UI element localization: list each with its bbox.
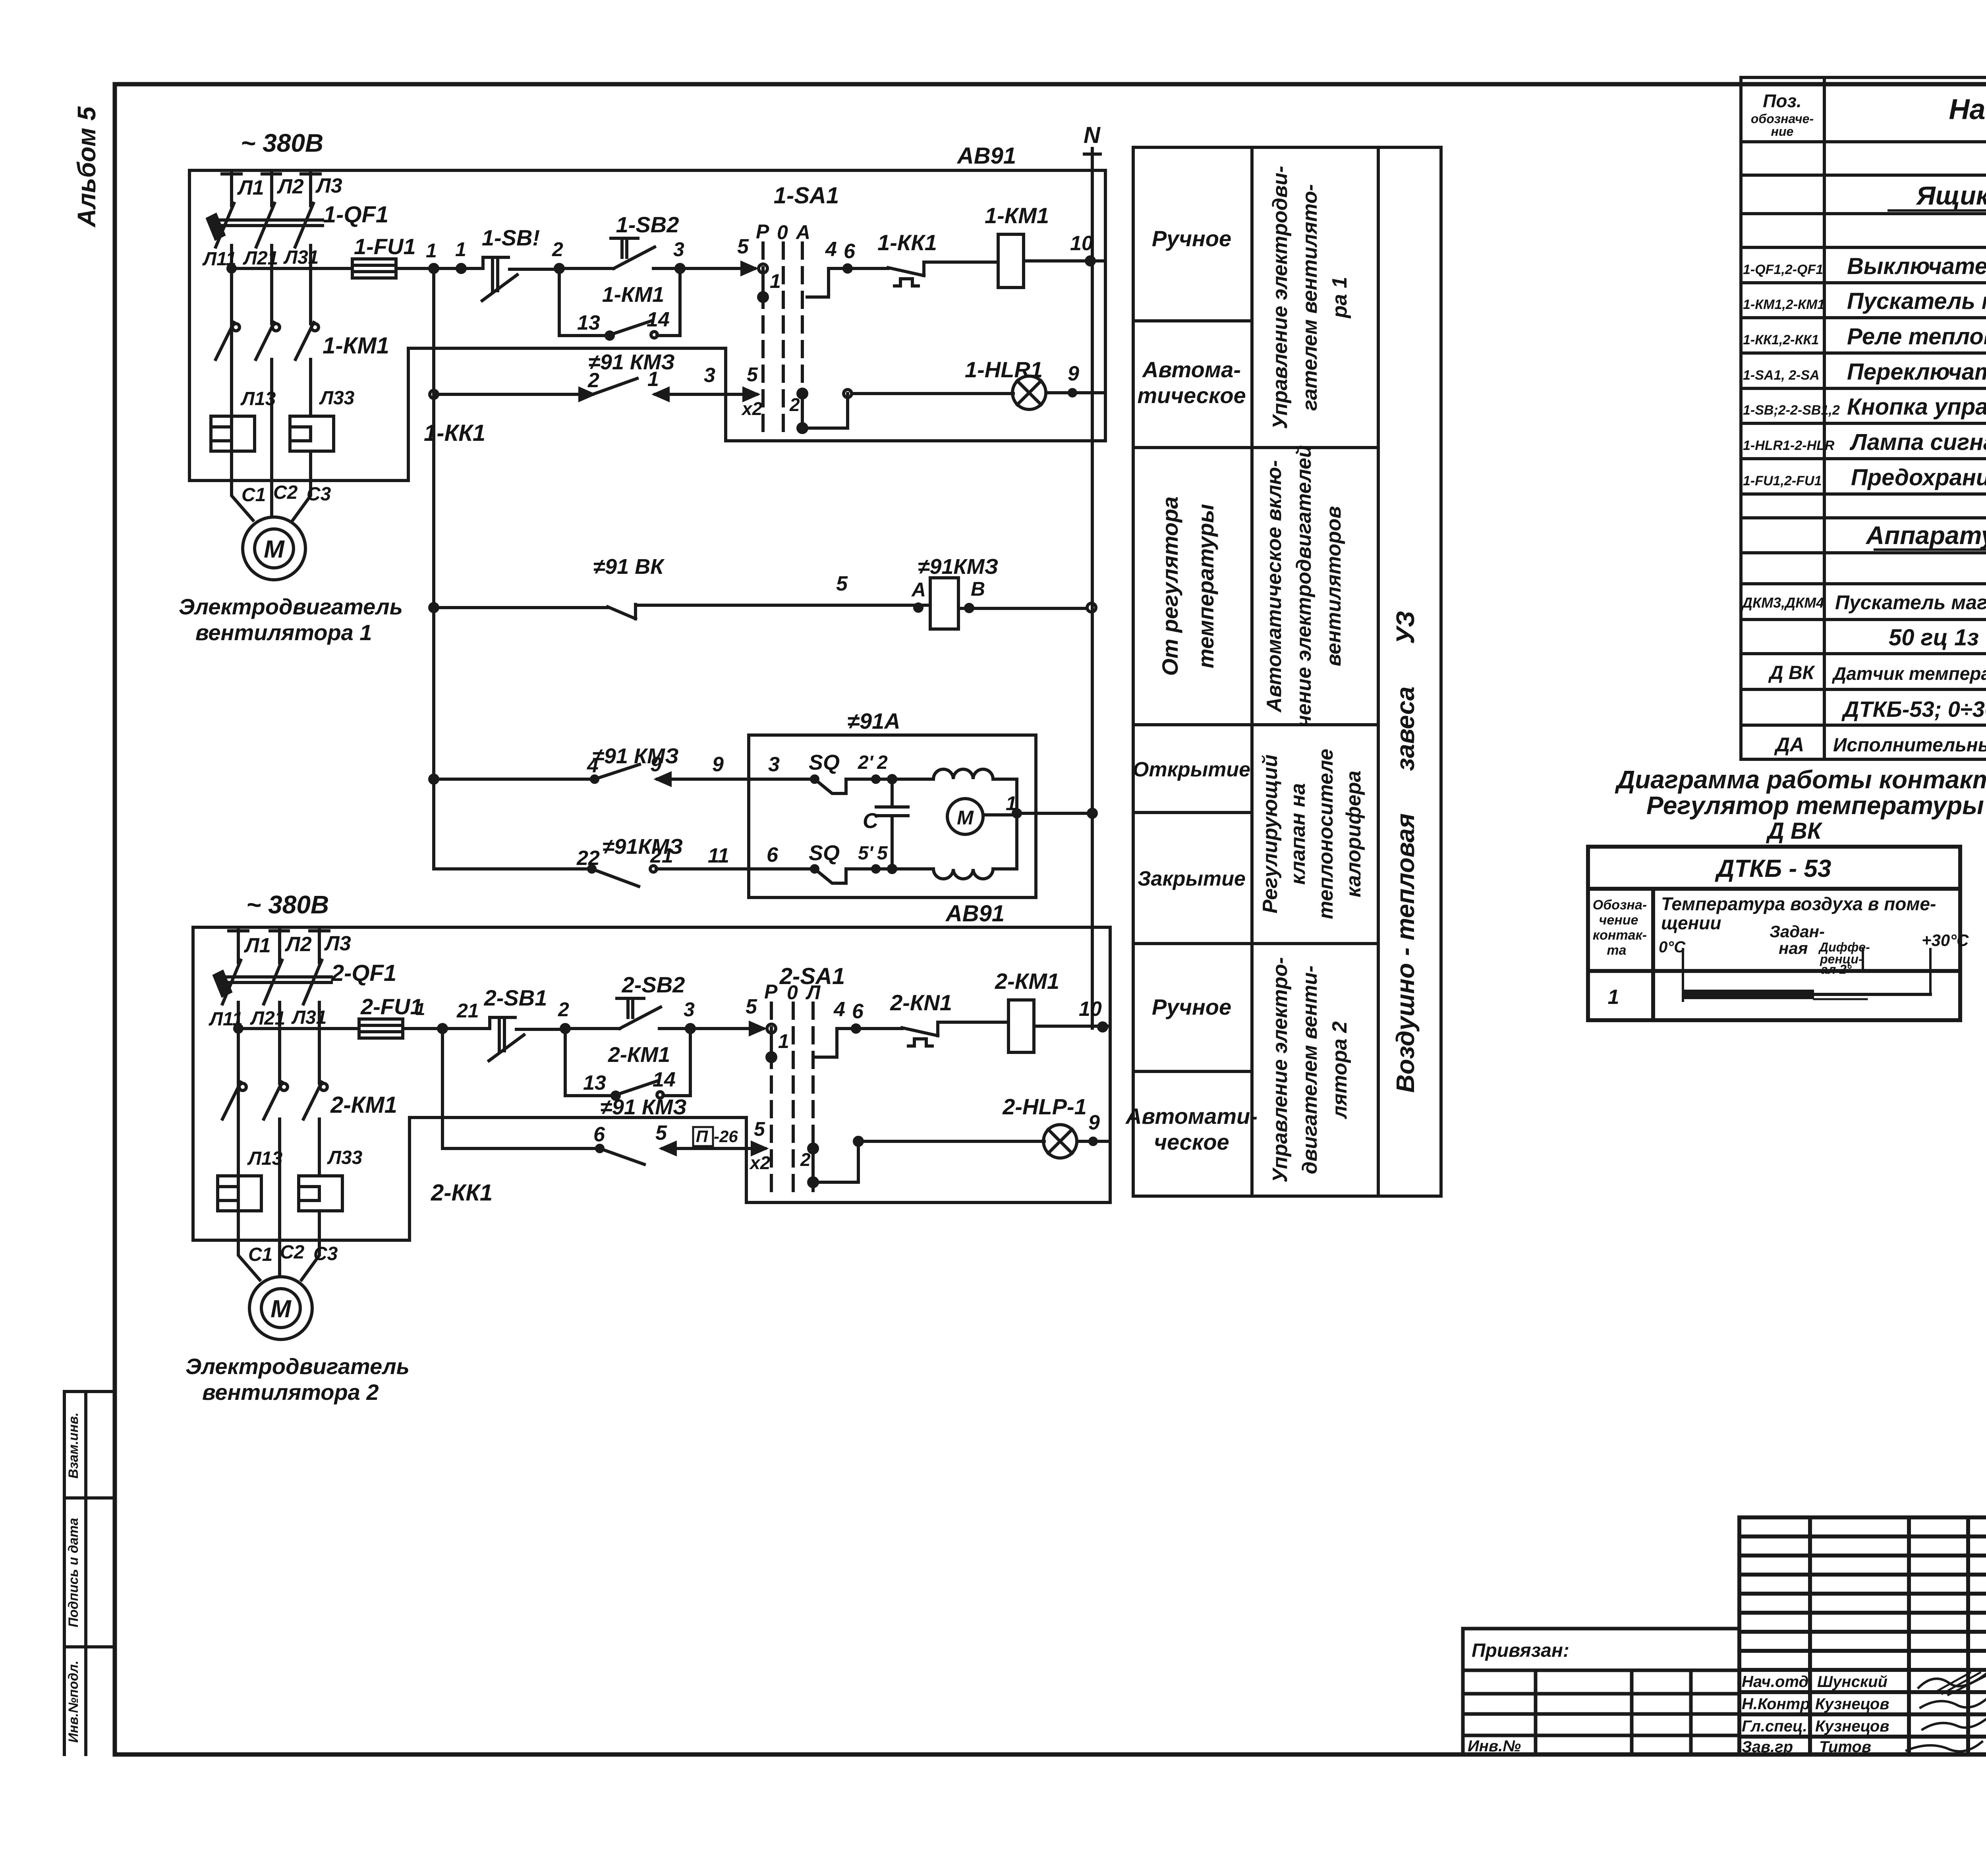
svg-text:С2: С2 (273, 482, 298, 503)
svg-text:та: та (1607, 943, 1626, 958)
svg-text:2: 2 (877, 752, 888, 773)
svg-text:Д ВК: Д ВК (1768, 662, 1816, 683)
svg-text:Автомати-: Автомати- (1125, 1104, 1258, 1129)
svg-text:Инв.№: Инв.№ (1468, 1737, 1521, 1755)
svg-text:~ 380В: ~ 380В (246, 890, 329, 919)
svg-text:М: М (270, 1295, 292, 1323)
SA1 step link to 4-6 (807, 268, 888, 297)
svg-text:9: 9 (712, 753, 724, 776)
fuse 1-FU1 (352, 259, 396, 278)
svg-text:5: 5 (747, 363, 758, 386)
SA1-2 position line O (792, 1003, 795, 1196)
svg-text:калорифера: калорифера (1342, 770, 1365, 897)
svg-text:SQ: SQ (809, 841, 840, 865)
svg-text:Нач.отд: Нач.отд (1742, 1673, 1808, 1691)
svg-text:1-КМ1: 1-КМ1 (985, 203, 1049, 228)
svg-text:Пускатель магнитный ПМА-012.3: Пускатель магнитный ПМА-012.3 У33 ~ 220, (1835, 591, 1986, 614)
svg-text:Наименование: Наименование (1949, 94, 1986, 125)
svg-text:2-КN1: 2-КN1 (890, 990, 952, 1015)
svg-text:Л13: Л13 (247, 1148, 283, 1169)
svg-text:50 гц 1з + 2р б/м: 50 гц 1з + 2р б/м (1889, 625, 1986, 650)
pushbutton 1-SB2 start (611, 238, 655, 268)
svg-text:1-HLR1: 1-HLR1 (965, 357, 1043, 382)
svg-text:1-SB2: 1-SB2 (616, 212, 679, 237)
svg-text:6: 6 (593, 1123, 605, 1146)
svg-text:5: 5 (836, 572, 848, 595)
wire to x2 m2 (675, 1147, 765, 1150)
svg-text:ческое: ческое (1154, 1129, 1229, 1154)
svg-text:С3: С3 (313, 1243, 338, 1264)
svg-text:Автома-: Автома- (1142, 357, 1241, 382)
coil 1-KM1 (998, 234, 1024, 288)
svg-text:2: 2 (789, 394, 800, 415)
junction L11 (228, 265, 235, 272)
svg-text:2-КМ1: 2-КМ1 (608, 1043, 670, 1067)
svg-text:1-SB;2-2-SB1,2: 1-SB;2-2-SB1,2 (1743, 403, 1840, 418)
svg-text:Пускатель магнитный: Пускатель магнитный (1847, 288, 1986, 314)
svg-text:Л: Л (806, 981, 821, 1004)
svg-text:Ручное: Ручное (1152, 994, 1231, 1019)
svg-text:ДТКБ-53; 0÷30°С, ~ 220В: ДТКБ-53; 0÷30°С, ~ 220В (1841, 697, 1986, 722)
svg-text:Л33: Л33 (327, 1147, 363, 1168)
wire row1 m2: L11 to fuse (238, 1027, 359, 1030)
signature squiggles (1907, 1674, 1986, 1751)
wire aux row y877 (408, 347, 726, 350)
svg-text:Поз.: Поз. (1763, 91, 1801, 111)
wire row2 automat from bus (432, 268, 435, 869)
SA1-2 position line P (770, 1003, 773, 1196)
svg-text:N: N (1084, 122, 1101, 148)
svg-text:1: 1 (778, 1030, 789, 1052)
title block outline (1739, 1517, 1986, 1754)
SA1 position line O (782, 243, 785, 439)
wire open row from bus (430, 775, 438, 783)
winding lower (933, 869, 993, 879)
wire node3 to SA1 with arrow 5 (680, 267, 755, 270)
svg-text:11: 11 (708, 844, 729, 867)
lamp wire (844, 390, 852, 398)
svg-text:1-КМ1: 1-КМ1 (602, 283, 664, 307)
svg-text:Титов: Титов (1819, 1738, 1871, 1756)
svg-text:клапан на: клапан на (1287, 783, 1310, 885)
svg-text:щении: щении (1661, 913, 1721, 933)
aux contact KM3 2-1 (593, 378, 725, 394)
wire into box to SQ (749, 778, 810, 781)
wire bus m2 down (442, 1029, 600, 1148)
svg-text:14: 14 (653, 1068, 676, 1091)
svg-text:≠91КМЗ: ≠91КМЗ (603, 835, 683, 859)
svg-text:Д ВК: Д ВК (1766, 818, 1823, 844)
SA1 position line A (801, 243, 804, 439)
wire node2 to SB2 (559, 267, 614, 270)
contactor 2-KM1 main contacts (222, 1082, 322, 1240)
svg-text:1-КМ1: 1-КМ1 (323, 333, 389, 359)
svg-text:1-FU1: 1-FU1 (354, 234, 416, 259)
svg-text:1-QF1: 1-QF1 (323, 202, 388, 228)
svg-text:Выключатель автоматический: Выключатель автоматический (1847, 253, 1986, 279)
svg-text:Исполнительный механизм МЭО-0.: Исполнительный механизм МЭО-0.63 ~ 220 В (1833, 735, 1986, 756)
contactor 1-KM1 main contacts (216, 322, 314, 481)
svg-text:0: 0 (777, 221, 788, 243)
thermal relay 2-KK1 heater on L33 (299, 1176, 342, 1211)
svg-text:Регулирующий: Регулирующий (1259, 755, 1282, 913)
wire node3 to SA1 m2 arrow 5 (690, 1027, 763, 1030)
motor M1 (243, 517, 305, 580)
svg-text:Ящик АВ91: Ящик АВ91 (1916, 181, 1986, 210)
svg-text:2-SB2: 2-SB2 (622, 972, 685, 997)
svg-text:Кузнецов: Кузнецов (1815, 1695, 1889, 1713)
svg-text:Л21: Л21 (250, 1008, 285, 1029)
svg-text:3: 3 (768, 753, 780, 776)
svg-text:ная: ная (1779, 939, 1808, 957)
svg-text:2-QF1: 2-QF1 (331, 960, 396, 986)
svg-text:5: 5 (746, 995, 757, 1018)
lamp 2-HLR1 (1043, 1125, 1077, 1158)
SA1 position line P (761, 243, 765, 439)
svg-text:2-КК1: 2-КК1 (431, 1180, 493, 1206)
svg-text:1: 1 (426, 239, 437, 262)
lamp 1-HLR1 (1012, 376, 1046, 409)
svg-text:Электродвигатель: Электродвигатель (179, 594, 403, 619)
wire row1 motor1 control: L11 to fuse (232, 267, 352, 270)
svg-text:Аппаратура по месту: Аппаратура по месту (1865, 521, 1986, 550)
svg-text:Л2: Л2 (276, 175, 304, 198)
svg-text:SQ: SQ (809, 751, 840, 774)
cabinet AB91 no.2 boundary (193, 927, 1110, 1240)
svg-text:Кузнецов: Кузнецов (1815, 1718, 1889, 1735)
svg-text:В: В (971, 578, 985, 600)
svg-text:ДА: ДА (1774, 733, 1804, 756)
svg-text:вентиляторов: вентиляторов (1322, 506, 1345, 666)
svg-text:Л31: Л31 (291, 1007, 326, 1028)
svg-text:4: 4 (833, 998, 845, 1021)
svg-text:9: 9 (1068, 362, 1079, 385)
thermal relay 1-KK1 heater on L33 (290, 416, 334, 451)
svg-text:3: 3 (704, 364, 715, 387)
wire SB1 to node 2 (510, 268, 559, 271)
motor 2 leads C1 C2 C3 (238, 1240, 319, 1280)
svg-text:≠91А: ≠91А (847, 708, 900, 733)
pushbutton 2-SB1 (489, 1017, 524, 1061)
svg-text:1: 1 (415, 1000, 425, 1019)
svg-text:Ручное: Ручное (1152, 226, 1231, 251)
svg-text:2-FU1: 2-FU1 (360, 994, 423, 1019)
svg-text:1-FU1,2-FU1: 1-FU1,2-FU1 (1743, 473, 1822, 488)
wire coil to N node 10 (1024, 259, 1105, 262)
privyazan box (1463, 1629, 1739, 1754)
contact state bar (1683, 948, 1930, 1001)
svg-text:Закрытие: Закрытие (1138, 867, 1246, 890)
wires heaters to box bottom m2 (238, 1211, 319, 1240)
pushbutton 2-SB2 (617, 998, 661, 1029)
svg-text:6: 6 (852, 1000, 864, 1023)
svg-text:9: 9 (1088, 1111, 1100, 1134)
svg-text:двигателем венти-: двигателем венти- (1298, 965, 1321, 1174)
capacitor C (876, 779, 908, 869)
svg-text:5: 5 (877, 843, 888, 864)
svg-text:1-QF1,2-QF1: 1-QF1,2-QF1 (1743, 262, 1823, 277)
svg-text:1-КМ1,2-КМ1: 1-КМ1,2-КМ1 (1743, 297, 1825, 312)
SA1 contact 2 on A (798, 389, 807, 398)
svg-text:Обозна-: Обозна- (1593, 897, 1647, 913)
wire aux row m2 y2814 (410, 1116, 746, 1119)
wire VK row from bus (430, 604, 438, 612)
svg-text:≠91 КМЗ: ≠91 КМЗ (592, 744, 679, 768)
svg-text:Шунский: Шунский (1817, 1673, 1887, 1691)
limit switch SQ upper (815, 779, 846, 793)
svg-text:0: 0 (787, 981, 798, 1004)
svg-text:2: 2 (800, 1149, 811, 1170)
svg-text:х2: х2 (741, 398, 763, 419)
svg-text:10: 10 (1079, 998, 1102, 1021)
svg-text:≠91 КМЗ: ≠91 КМЗ (588, 350, 675, 374)
circuit breaker 2-QF1 (222, 960, 331, 1083)
marker P-26 (693, 1127, 713, 1146)
wire into box to SQ lower (749, 867, 810, 870)
SA1-2 contact 1 on P (767, 1024, 776, 1033)
svg-text:температуры: температуры (1193, 504, 1218, 668)
svg-text:21: 21 (456, 1000, 479, 1022)
stamp boxes bottom-left (64, 1392, 115, 1754)
svg-text:вентилятора 1: вентилятора 1 (195, 620, 372, 645)
svg-text:2-КМ1: 2-КМ1 (330, 1092, 397, 1118)
wire row2 into SA1 x2 (725, 393, 757, 396)
svg-text:2-КМ1: 2-КМ1 (995, 969, 1059, 994)
node 1b (457, 264, 465, 272)
phase stub L3 (301, 172, 320, 206)
svg-text:тическое: тическое (1137, 383, 1246, 408)
wire phase L1 m2 down (237, 1029, 240, 1240)
svg-text:10: 10 (1070, 232, 1093, 255)
wire SB2 to node 3 m2 (659, 1027, 690, 1030)
svg-text:гателем вентилято-: гателем вентилято- (1298, 184, 1321, 411)
svg-text:Открытие: Открытие (1133, 758, 1250, 781)
svg-text:А: А (795, 221, 810, 243)
motor M2 (249, 1277, 312, 1339)
actuator box ≠91 A (749, 735, 1036, 897)
wire winding lower to node 1 (993, 813, 1017, 869)
coil 2-KM1 (1008, 1000, 1034, 1052)
svg-text:Температура воздуха в поме-: Температура воздуха в поме- (1661, 894, 1936, 914)
svg-text:22: 22 (576, 847, 600, 870)
svg-text:лятора 2: лятора 2 (1328, 1021, 1351, 1119)
thermal relay 2-KK1 heater on L13 (218, 1176, 261, 1211)
svg-text:1-SA1: 1-SA1 (774, 183, 839, 208)
svg-text:Взам.инв.: Взам.инв. (66, 1413, 81, 1479)
svg-text:2-HLP-1: 2-HLP-1 (1002, 1094, 1087, 1119)
svg-text:Л3: Л3 (315, 174, 342, 197)
svg-text:Лампа сигнальная: Лампа сигнальная (1849, 429, 1986, 455)
phase stub L2 m2 (270, 929, 288, 963)
svg-text:2: 2 (558, 998, 569, 1021)
svg-text:А: А (911, 579, 926, 601)
motor M actuator (947, 799, 983, 834)
svg-text:3: 3 (673, 238, 684, 261)
limit switch SQ lower (815, 869, 846, 883)
SA1 contact 1 on P (759, 264, 767, 273)
wire close row from bus corner (434, 867, 592, 870)
circuit breaker 1-QF1 (216, 203, 323, 324)
svg-text:Альбом 5: Альбом 5 (72, 106, 101, 228)
svg-text:вентилятора 2: вентилятора 2 (202, 1380, 379, 1405)
svg-text:≠91 ВК: ≠91 ВК (593, 555, 665, 579)
svg-text:Н.Контр: Н.Контр (1742, 1695, 1810, 1713)
aux contact KM3 22-21 (592, 869, 749, 886)
svg-text:ал 2°: ал 2° (1821, 962, 1852, 977)
svg-text:2': 2' (858, 752, 874, 773)
svg-text:5: 5 (655, 1121, 667, 1145)
svg-text:Гл.спец.: Гл.спец. (1742, 1718, 1807, 1735)
svg-text:От регулятора: От регулятора (1157, 496, 1182, 676)
svg-text:Воздушно - тепловая завес: Воздушно - тепловая завеса УЗ (1391, 611, 1420, 1093)
svg-text:теплоносителе: теплоносителе (1314, 749, 1337, 919)
motor 1 leads C1 C2 C3 (232, 481, 311, 520)
svg-text:-26: -26 (714, 1127, 738, 1146)
thermal contact 2-KK1 NC (902, 1022, 1008, 1046)
svg-text:1: 1 (455, 238, 466, 261)
phase stub L3 m2 (310, 929, 329, 963)
svg-text:1-КК1: 1-КК1 (877, 230, 937, 255)
svg-text:Датчик температуры камерный би: Датчик температуры камерный биметалличес… (1831, 663, 1986, 684)
svg-text:≠91 КМЗ: ≠91 КМЗ (600, 1095, 687, 1119)
svg-text:Регулятор температуры: Регулятор температуры (1646, 791, 1984, 820)
svg-text:обозначе-: обозначе- (1751, 112, 1814, 126)
svg-text:х2: х2 (749, 1152, 771, 1173)
aux contact 1-KM1 13-14 branch (559, 268, 680, 336)
thermostat contact ≠91 VK (608, 604, 930, 619)
wire lamp to node 9 m2 (1077, 1140, 1110, 1143)
svg-text:С1: С1 (241, 484, 266, 506)
svg-text:1-КК1,2-КК1: 1-КК1,2-КК1 (1743, 332, 1819, 347)
SA1-2 step link to 4-6 (816, 1029, 902, 1057)
wire winding to node 1 (993, 779, 1017, 813)
aux contact 2-KM1 13-14 branch (565, 1029, 690, 1096)
svg-text:М: М (957, 807, 974, 829)
SA1-2 position line A (811, 1003, 815, 1196)
pushbutton 1-SB1 stop (482, 257, 517, 301)
svg-text:ра 1: ра 1 (1328, 277, 1351, 319)
wire N bus vertical (1084, 149, 1100, 1028)
svg-text:+30°С: +30°С (1922, 931, 1969, 950)
svg-text:Предохранитель: Предохранитель (1851, 465, 1986, 490)
node 2 (555, 264, 563, 272)
svg-text:М: М (264, 536, 285, 563)
svg-text:3: 3 (684, 998, 695, 1021)
wire node1 out to N (1017, 812, 1092, 815)
svg-text:Привязан:: Привязан: (1472, 1640, 1569, 1661)
svg-text:ДТКБ - 53: ДТКБ - 53 (1715, 855, 1831, 882)
svg-text:С1: С1 (248, 1244, 272, 1265)
aux contact KM3 6-5 m2 (600, 1148, 692, 1164)
svg-text:Инв.№подл.: Инв.№подл. (66, 1660, 81, 1743)
phase stub L1 m2 (229, 929, 248, 963)
svg-text:≠91КМЗ: ≠91КМЗ (918, 555, 999, 579)
svg-text:С: С (863, 809, 879, 833)
svg-text:13: 13 (583, 1071, 606, 1094)
node 3 (676, 264, 684, 272)
parts list table (1741, 77, 1986, 759)
DTKB-53 table (1588, 847, 1960, 1020)
aux contact KM3 4-9 (595, 764, 749, 779)
wire coil to N (958, 607, 1087, 610)
wire node2 to SB2 m2 (565, 1027, 620, 1030)
svg-text:6: 6 (767, 843, 779, 867)
svg-text:Задан-: Задан- (1770, 922, 1825, 941)
svg-text:Подпись и дата: Подпись и дата (66, 1518, 81, 1627)
svg-text:ние: ние (1771, 124, 1794, 139)
wire SB1 to node 2 m2 (516, 1028, 565, 1031)
svg-text:1: 1 (1608, 986, 1619, 1009)
svg-text:1: 1 (770, 270, 781, 292)
svg-text:14: 14 (647, 308, 670, 331)
svg-text:1: 1 (1006, 792, 1017, 814)
wire fuse to SB1 (396, 267, 481, 270)
svg-text:Автоматическое вклю-: Автоматическое вклю- (1263, 460, 1286, 713)
lamp wire m2 (854, 1137, 862, 1145)
svg-text:1-HLR1-2-HLR: 1-HLR1-2-HLR (1743, 438, 1835, 453)
svg-text:Электродвигатель: Электродвигатель (185, 1354, 410, 1379)
svg-text:5: 5 (754, 1118, 765, 1140)
svg-text:АВ91: АВ91 (956, 143, 1016, 169)
svg-text:Р: Р (764, 980, 778, 1003)
wire SB2 to node 3 (653, 267, 680, 270)
svg-text:~ 380В: ~ 380В (241, 129, 323, 157)
svg-text:С2: С2 (280, 1242, 305, 1263)
svg-text:Управление электро-: Управление электро- (1269, 957, 1292, 1183)
cabinet AB91 no.1 boundary (189, 170, 1105, 481)
svg-text:Л3: Л3 (324, 932, 351, 955)
phase stub L2 (262, 172, 280, 206)
svg-text:Переключатель универсальный: Переключатель универсальный (1847, 359, 1986, 385)
fuse 2-FU1 (359, 1019, 403, 1038)
svg-text:чение: чение (1599, 913, 1638, 928)
svg-text:2-SB1: 2-SB1 (484, 985, 547, 1010)
thermal contact 1-KK1 NC (888, 262, 998, 286)
svg-text:С3: С3 (307, 484, 331, 505)
svg-text:контак-: контак- (1593, 928, 1647, 943)
svg-text:ДКМ3,ДКМ4: ДКМ3,ДКМ4 (1741, 594, 1824, 611)
svg-text:1-SB!: 1-SB! (482, 225, 540, 250)
svg-text:5': 5' (858, 843, 874, 864)
svg-text:Л21: Л21 (243, 248, 278, 269)
svg-text:Диаграмма работы контактов: Диаграмма работы контактов (1615, 765, 1986, 794)
svg-text:Зав.гр: Зав.гр (1742, 1738, 1793, 1756)
function column table (1133, 147, 1441, 1196)
svg-text:1-SА1, 2-SА: 1-SА1, 2-SА (1743, 368, 1820, 383)
svg-text:4: 4 (825, 238, 837, 261)
svg-text:5: 5 (737, 235, 749, 258)
svg-text:Реле тепловое: Реле тепловое (1847, 324, 1986, 349)
svg-text:Л33: Л33 (319, 388, 355, 409)
svg-text:Л1: Л1 (243, 934, 271, 957)
wire phase L1 down to motor (230, 268, 233, 481)
svg-text:Управление электродви-: Управление электродви- (1269, 166, 1292, 429)
svg-text:Кнопка управления: Кнопка управления (1847, 394, 1986, 420)
phase stub L1 (222, 172, 241, 206)
wire lamp to N node 9 (1046, 391, 1105, 394)
node 1 (430, 264, 438, 272)
svg-text:чение электродвигателей: чение электродвигателей (1292, 445, 1316, 727)
svg-text:13: 13 (577, 311, 600, 334)
svg-text:2: 2 (552, 238, 563, 261)
SA1-2 contact 2 on A (809, 1144, 817, 1153)
svg-text:АВ91: АВ91 (945, 901, 1005, 926)
wire fuse to SB1 m2 (403, 1027, 488, 1030)
svg-text:Л31: Л31 (283, 247, 319, 268)
svg-text:Р: Р (756, 220, 769, 243)
svg-text:П: П (696, 1127, 708, 1146)
svg-text:Л1: Л1 (237, 176, 264, 199)
